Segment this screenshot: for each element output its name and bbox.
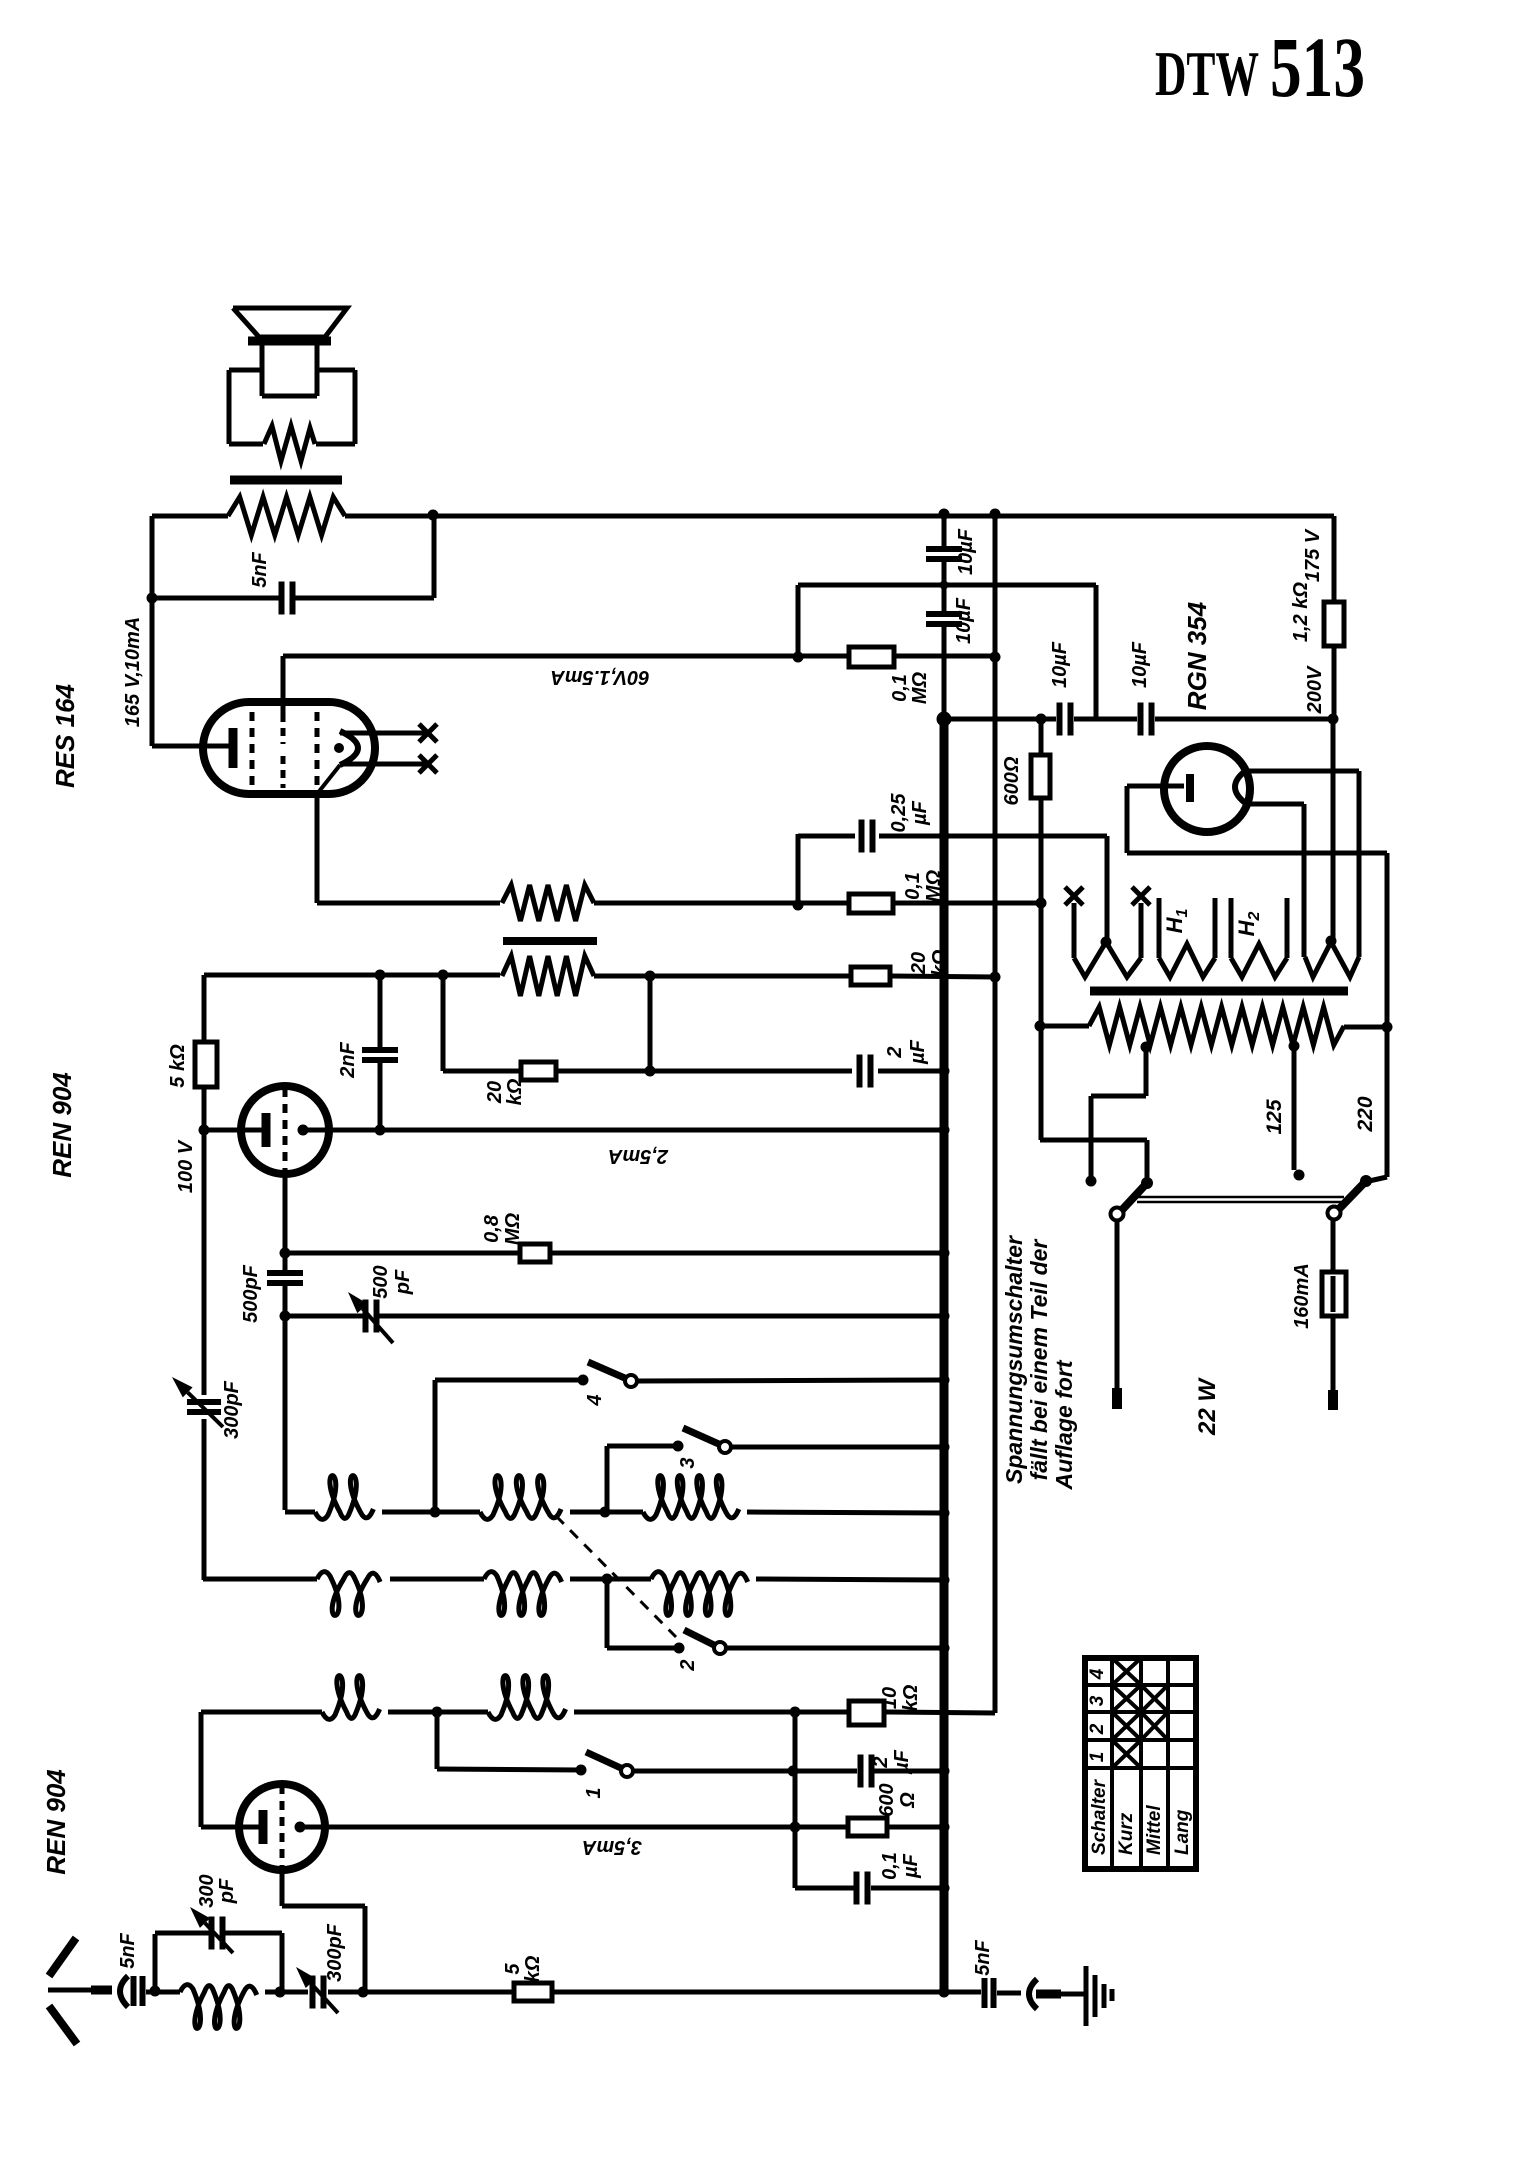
node 20k branch — [438, 970, 449, 981]
wire 0.25uF branch vertical — [796, 834, 801, 905]
node antenna tank — [150, 1986, 161, 1997]
tube REN904 (detector) envelope — [241, 1086, 329, 1174]
x winding terminal — [1065, 887, 1083, 905]
svg-text:100 V: 100 V — [175, 1139, 197, 1193]
svg-text:RES 164: RES 164 — [50, 683, 80, 788]
winding H2 — [1231, 944, 1287, 977]
trimmer arrow — [348, 1292, 393, 1343]
wire mains lead left — [1115, 1220, 1120, 1388]
svg-text:175 V: 175 V — [1302, 528, 1324, 582]
wire vertical x1096 — [1094, 585, 1099, 719]
wire switch3 to bus — [731, 1445, 944, 1450]
RGN354 anode hook — [1235, 769, 1248, 805]
svg-text:3,5mA: 3,5mA — [582, 1836, 642, 1858]
wire row3 corner to cathode — [199, 1712, 204, 1827]
capacitor 5nF (feedback) — [282, 582, 293, 615]
node bus1 main junction — [937, 712, 952, 727]
wire switch3 — [607, 1444, 678, 1449]
wire 5nF loop — [152, 596, 280, 601]
resistor 20 kOhm (grid V2 feed) — [851, 967, 890, 985]
x winding terminal — [1132, 887, 1150, 905]
wire tank right side — [280, 1933, 285, 1992]
svg-text:2,5mA: 2,5mA — [608, 1145, 669, 1167]
wire RES164 top grid lead — [281, 656, 286, 714]
node tap A — [1141, 1042, 1152, 1053]
svg-text:10µF: 10µF — [953, 597, 975, 644]
svg-text:RGN 354: RGN 354 — [1182, 601, 1212, 710]
antenna — [48, 1938, 112, 2044]
REN904 RF anode dot — [295, 1822, 306, 1833]
svg-text:5nF: 5nF — [972, 1939, 994, 1975]
wire tank left side — [153, 1934, 158, 1991]
wire top bus left — [152, 514, 228, 519]
wire interstage secondary right — [594, 974, 851, 979]
svg-text:160mA: 160mA — [1291, 1263, 1313, 1329]
svg-text:5 kΩ: 5 kΩ — [167, 1044, 189, 1088]
svg-text:165 V,10mA: 165 V,10mA — [122, 617, 144, 727]
voltage selector switch right — [1328, 1175, 1388, 1220]
wire coil row 2 — [203, 1577, 317, 1582]
wire mains lead right — [1331, 1219, 1336, 1390]
voltage selector switch left — [1111, 1140, 1154, 1221]
capacitor 0,1 uF — [857, 1872, 868, 1905]
svg-text:Spannungsumschalter: Spannungsumschalter — [1001, 1235, 1027, 1484]
node 2nF — [375, 970, 386, 981]
coil L3 — [643, 1476, 739, 1520]
antenna jack arc — [120, 1976, 128, 2007]
node bus1/coil row2 — [939, 1575, 950, 1586]
svg-text:Lang: Lang — [1172, 1809, 1193, 1855]
interstage transformer core bar — [503, 937, 597, 945]
title DTW 513 — [1155, 19, 1365, 115]
wire switch2 to bus — [726, 1646, 944, 1651]
svg-text:300pF: 300pF — [196, 1874, 238, 1907]
coil L8 — [488, 1676, 566, 1720]
node 200V — [1328, 714, 1339, 725]
capacitor 300 pF variable (tank) — [212, 1917, 223, 1950]
coil L7 — [322, 1676, 380, 1720]
svg-text:2nF: 2nF — [337, 1041, 359, 1078]
wire vertical x798 upper — [796, 585, 801, 657]
wire interstage primary to 0.1M — [594, 901, 849, 906]
node bus1/screen wire — [940, 581, 949, 590]
capacitor 10uF (1) — [926, 549, 962, 559]
wire to autotransformer winding — [1040, 1024, 1089, 1029]
resistor 10 kOhm — [849, 1701, 884, 1725]
winding W1 left stub — [1072, 903, 1077, 958]
wire V2 grid down — [283, 1174, 288, 1253]
wire 2nF branch lower — [378, 1062, 383, 1130]
svg-text:300pF: 300pF — [221, 1380, 243, 1439]
wire 500pF trimmer — [285, 1314, 364, 1319]
wire switch1 — [437, 1769, 581, 1770]
node bus1/600R — [939, 1822, 950, 1833]
RES164 anode hook — [340, 731, 358, 765]
REN904 det anode dot — [298, 1125, 309, 1136]
svg-text:5nF: 5nF — [249, 551, 271, 587]
earth jack pin — [1036, 1990, 1061, 1999]
node 2uF branch — [645, 971, 656, 982]
resistor 5 kOhm — [195, 1042, 217, 1087]
wire RGN anode lead 1 — [1248, 769, 1359, 774]
wire 2nF branch upper — [378, 975, 383, 1048]
node 2uF branch bottom — [645, 1066, 656, 1077]
wire to 5k — [328, 1990, 514, 1995]
node bus1/2uF — [939, 1066, 950, 1077]
wire 0.8M — [285, 1251, 520, 1256]
wire V1 grid to tank — [363, 1906, 368, 1992]
switch 3 — [673, 1428, 732, 1453]
series trimmer arrow — [296, 1967, 338, 2013]
node bus1/switch1 — [939, 1766, 950, 1777]
node grid branch — [358, 1987, 369, 1998]
svg-text:300pF: 300pF — [324, 1923, 346, 1982]
capacitor 2nF — [362, 1050, 398, 1060]
node cathode V2 — [199, 1125, 210, 1136]
svg-text:1: 1 — [1087, 1752, 1108, 1763]
wire switch2 — [607, 1646, 679, 1651]
svg-text:10µF: 10µF — [955, 528, 977, 575]
wire tap A contact — [1089, 1096, 1094, 1181]
node L2/switch3 branch — [600, 1507, 611, 1518]
wire to earth — [1061, 1992, 1086, 1997]
node 0.25uF tap — [793, 900, 804, 911]
coil L1 — [315, 1476, 373, 1520]
tube REN904 (RF) envelope — [239, 1784, 325, 1870]
wire 220 line — [1385, 853, 1390, 1177]
wire switch3 vertical — [605, 1446, 610, 1512]
wire tap A down — [1144, 1047, 1149, 1096]
wire 125 tap — [1292, 1046, 1297, 1170]
capacitor 300 pF variable (tuning) — [187, 1402, 221, 1412]
node 500pF/trimmer wire — [280, 1311, 291, 1322]
wire top bus right — [345, 514, 1334, 519]
node bus1/switch3 — [939, 1442, 950, 1453]
REN904 RF cathode bar — [259, 1810, 268, 1844]
wire tap A left — [1091, 1094, 1146, 1099]
wire anode2 to winding W4 — [1302, 804, 1307, 957]
capacitor 5nF (antenna) — [134, 1976, 143, 2006]
svg-text:0,8MΩ: 0,8MΩ — [481, 1212, 524, 1245]
coil L5 — [484, 1572, 562, 1616]
node L7/switch1 branch — [432, 1707, 443, 1718]
wire tank top — [155, 1931, 211, 1936]
svg-text:DTW: DTW — [1155, 39, 1259, 109]
svg-text:3: 3 — [1087, 1695, 1108, 1706]
switch 2 — [674, 1630, 727, 1654]
wire anode1 to winding W4 — [1357, 771, 1362, 957]
node top-bus / 5nF loop — [428, 510, 439, 521]
node bus1/trimmer — [939, 1311, 950, 1322]
RES164 anode dot — [334, 743, 344, 753]
capacitor 500 pF trimmer — [366, 1300, 377, 1333]
node tank/series trimmer — [275, 1987, 286, 1998]
node bus1/0.1uF — [939, 1883, 950, 1894]
wire switch1 to 2uF — [633, 1769, 857, 1774]
switch 4 — [578, 1362, 638, 1387]
svg-text:22 W: 22 W — [1194, 1377, 1221, 1436]
wire tank bottom — [265, 1990, 280, 1995]
node L1/switch4 branch — [430, 1507, 441, 1518]
RES164 grid 1 (dashed) — [250, 712, 255, 788]
switch 1 — [576, 1752, 634, 1777]
svg-text:fällt bei einem Teil der: fällt bei einem Teil der — [1026, 1239, 1052, 1481]
resistor 20 kOhm (2) — [521, 1062, 556, 1080]
ground symbol — [1086, 1966, 1112, 2026]
node bus1/switch4 — [939, 1375, 950, 1386]
wire to V1 cathode — [201, 1825, 259, 1830]
svg-text:Kurz: Kurz — [1116, 1812, 1137, 1855]
node x795/switch1 — [788, 1766, 799, 1777]
capacitor 0.25 uF — [862, 820, 873, 853]
wire to 500pF — [283, 1253, 288, 1271]
resistor 5 kOhm (antenna) — [514, 1983, 552, 2001]
RGN354 cathode bar — [1186, 774, 1194, 802]
wire switch1 vertical — [435, 1712, 440, 1769]
winding W4 (rectifier filament) — [1305, 942, 1359, 977]
switch table — [1085, 1658, 1196, 1869]
svg-text:513: 513 — [1270, 19, 1365, 115]
svg-text:2: 2 — [1087, 1723, 1108, 1735]
fuse 160 mA — [1322, 1272, 1346, 1316]
svg-text:0,1µF: 0,1µF — [879, 1852, 922, 1880]
wire V1 grid jog — [282, 1904, 365, 1909]
node on bus 2 — [990, 652, 1001, 663]
resistor 0.1 MOhm (grid RES164) — [849, 647, 894, 667]
wire to earth jack — [997, 1991, 1021, 1996]
125 contact end — [1294, 1170, 1305, 1181]
node x795/anode — [790, 1822, 801, 1833]
svg-text:1: 1 — [583, 1787, 605, 1798]
winding H1 left stub — [1157, 898, 1162, 958]
wire 0.1uF branch — [795, 1886, 854, 1891]
wire V1 grid down — [280, 1869, 285, 1906]
node x795 top — [790, 1707, 801, 1718]
svg-text:10µF: 10µF — [1049, 641, 1071, 688]
tuning arrow — [172, 1377, 223, 1427]
node 220 vertical — [1382, 1022, 1393, 1033]
interstage transformer primary — [502, 885, 594, 921]
REN904 det grid (dashed) — [283, 1088, 288, 1172]
tube RES164 envelope — [203, 702, 375, 794]
power transformer core bar — [1090, 987, 1348, 996]
svg-text:0,1MΩ: 0,1MΩ — [902, 869, 945, 902]
svg-text:200V: 200V — [1304, 665, 1326, 714]
node 600R top — [1036, 714, 1047, 725]
svg-text:500pF: 500pF — [240, 1264, 262, 1323]
wire RES164 anode down — [315, 794, 320, 903]
svg-text:60V,1.5mA: 60V,1.5mA — [550, 666, 649, 688]
svg-text:4: 4 — [584, 1394, 606, 1406]
wire 5nF loop right vertical — [432, 516, 437, 598]
tank trimmer arrow — [190, 1907, 233, 1953]
wire 200V to rectifier winding centre tap — [1331, 719, 1336, 941]
node bus1 bottom end — [939, 1987, 950, 1998]
capacitor 10uF (4) — [1141, 703, 1152, 736]
wire coil row 3 — [201, 1710, 322, 1715]
coil L2 — [480, 1476, 561, 1520]
wire switch2 vertical — [605, 1579, 610, 1648]
wire RGN cathode down — [1125, 786, 1130, 853]
switch linkage bar line 1 — [1137, 1196, 1344, 1199]
node top-bus / filter bus 1 — [939, 509, 950, 520]
wire interstage secondary left — [204, 973, 500, 978]
svg-text:20kΩ: 20kΩ — [484, 1078, 526, 1105]
node bus1/coil row1 — [939, 1508, 950, 1519]
wire bus1 upper — [942, 514, 947, 547]
wire 600 Ohm down / transformer primary feed — [1039, 798, 1044, 1140]
wire RGN anode lead 2 — [1248, 802, 1304, 807]
capacitor 5nF (earth) — [985, 1978, 994, 2008]
capacitor 10uF (2) — [926, 614, 962, 624]
svg-text:REN 904: REN 904 — [47, 1072, 77, 1178]
svg-text:10kΩ: 10kΩ — [879, 1684, 922, 1711]
wire V2 anode — [303, 1128, 944, 1133]
coil L4 — [317, 1572, 380, 1616]
mains lead left tip — [1112, 1388, 1122, 1409]
wire switch4 to bus — [637, 1380, 944, 1381]
node grid/0.25uF branch — [793, 652, 804, 663]
node 600 Ohm feed — [1036, 898, 1047, 909]
wire 100V vertical — [202, 975, 207, 1395]
loudspeaker — [229, 308, 355, 461]
winding H1 — [1159, 944, 1215, 977]
tap A contact end — [1086, 1176, 1097, 1187]
capacitor 500 pF (grid) — [267, 1273, 303, 1283]
bus 2 vertical — [993, 514, 998, 1713]
wire RES164 anode to interstage primary — [317, 901, 500, 906]
wire x285 down to coil row 1 — [283, 1316, 288, 1510]
node primary tap — [1035, 1021, 1046, 1032]
resistor 0.1 MOhm (anode feed) — [849, 894, 893, 913]
capacitor 300 pF series trimmer — [313, 1976, 324, 2009]
wire 10k to bus2 — [884, 1712, 995, 1713]
RES164 cathode bar — [229, 728, 238, 768]
wire left vertical — [150, 516, 155, 746]
node 2nF/anode — [375, 1125, 386, 1136]
svg-text:Mittel: Mittel — [1144, 1805, 1165, 1855]
wire screen feed — [798, 583, 1096, 588]
wire 20k branch — [443, 1069, 521, 1074]
mains autotransformer winding — [1089, 1007, 1344, 1045]
svg-text:REN 904: REN 904 — [41, 1769, 71, 1875]
x terminal 1 — [419, 724, 437, 742]
svg-text:4: 4 — [1087, 1668, 1108, 1680]
wire to RES164 cathode — [152, 744, 229, 749]
capacitor 2 uF (detector) — [860, 1055, 871, 1088]
mains lead right tip — [1328, 1390, 1338, 1410]
svg-text:5nF: 5nF — [117, 1932, 139, 1968]
resistor 1,2 kOhm — [1324, 602, 1344, 646]
winding H2 left stub — [1229, 898, 1234, 958]
main negative bus (thick) — [940, 719, 949, 1993]
node 5nF loop — [147, 593, 158, 604]
node bus1/0.25uF — [939, 831, 950, 842]
node top-bus / bus 2 — [990, 509, 1001, 520]
wire RES164 grid to 0.1M — [283, 654, 849, 659]
earth jack arc — [1029, 1979, 1037, 2009]
node bus1/V2 anode — [939, 1125, 950, 1136]
svg-text:0,1MΩ: 0,1MΩ — [889, 671, 931, 704]
wire V1 anode — [300, 1825, 848, 1830]
wire RGN cathode to 220 tap — [1127, 851, 1387, 856]
wire RES164 filament lead 2 — [340, 762, 428, 767]
node W1 centre tap — [1101, 937, 1112, 948]
wire winding right end — [1344, 1025, 1387, 1030]
svg-text:Schalter: Schalter — [1089, 1778, 1110, 1855]
svg-text:600Ω: 600Ω — [1001, 756, 1023, 805]
node bus1/switch2 — [939, 1643, 950, 1654]
wire 20k branch vertical — [441, 975, 446, 1071]
winding H1 right stub — [1213, 898, 1218, 958]
wire x795 vertical — [793, 1712, 798, 1888]
resistor 600 Ohm (V1 anode) — [848, 1818, 887, 1836]
wire mains switch feed — [1040, 1138, 1147, 1143]
output transformer core bar — [230, 476, 342, 485]
dashed coupling line (ganged switches) — [556, 1516, 676, 1637]
coil L9 (antenna) — [180, 1985, 257, 2029]
RES164 anode diagonal lead — [317, 765, 340, 794]
RES164 grid 3 (dashed) — [315, 712, 320, 788]
winding H2 right stub — [1285, 898, 1290, 958]
capacitor 10uF (3) — [1060, 703, 1071, 736]
capacitor 2 uF (antenna stage) — [861, 1755, 872, 1788]
wire RES164 filament lead 1 — [340, 731, 428, 736]
wire antenna input — [146, 1990, 180, 1995]
REN904 det cathode bar — [262, 1113, 271, 1147]
winding W1 (heater) — [1074, 942, 1141, 977]
node tap 125 — [1289, 1041, 1300, 1052]
switch linkage bar line 2 — [1137, 1201, 1344, 1204]
wire 175V right vertical — [1332, 516, 1337, 602]
RES164 grid 2 (dashed) — [281, 714, 286, 744]
svg-text:220: 220 — [1354, 1096, 1377, 1132]
svg-text:125: 125 — [1263, 1099, 1286, 1134]
resistor 0,8 MOhm — [520, 1244, 550, 1262]
svg-text:Auflage fort: Auflage fort — [1051, 1359, 1077, 1490]
resistor 600 Ohm (PSU) — [1031, 755, 1050, 798]
interstage transformer secondary — [502, 956, 594, 996]
wire RGN cathode lead — [1127, 784, 1184, 789]
wire HT rail — [944, 717, 1056, 722]
wire switch4 vertical — [433, 1380, 438, 1512]
wire coil row 1 — [285, 1510, 315, 1515]
node bus1/0.8M — [939, 1248, 950, 1259]
wire antenna return — [552, 1990, 981, 1995]
wire 0.25uF branch — [798, 834, 855, 839]
wire to V2 cathode — [204, 1128, 262, 1133]
svg-text:2: 2 — [677, 1659, 699, 1671]
wire x650 vertical — [648, 976, 653, 1071]
node on bus 2 — [990, 972, 1001, 983]
node W4 centre tap (200V) — [1326, 936, 1337, 947]
svg-text:3: 3 — [677, 1457, 699, 1468]
svg-text:500pF: 500pF — [370, 1265, 414, 1298]
node L5/switch2 branch — [602, 1574, 613, 1585]
coil L6 — [651, 1572, 748, 1616]
tube RGN354 envelope — [1164, 746, 1250, 832]
svg-text:1,2 kΩ: 1,2 kΩ — [1290, 582, 1312, 642]
node grid/0.8M — [280, 1248, 291, 1259]
wire to 600 Ohm — [1039, 719, 1044, 755]
wire heater CT down to winding W1 — [1105, 836, 1110, 941]
output transformer primary winding (on bus) — [228, 497, 345, 535]
wire switch4 — [435, 1378, 583, 1383]
x terminal 2 — [419, 755, 437, 773]
REN904 RF grid (dashed) — [280, 1785, 285, 1869]
svg-text:10µF: 10µF — [1129, 641, 1151, 688]
winding W1 right stub — [1139, 903, 1144, 958]
